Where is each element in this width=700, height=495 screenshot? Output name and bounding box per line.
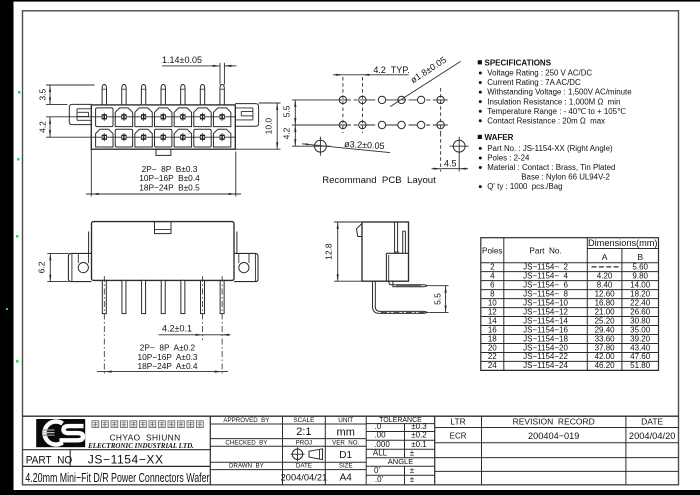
table header [482,238,657,262]
svg-text:Recommand PCB Layout: Recommand PCB Layout [322,175,436,186]
svg-text:JS−1154−18: JS−1154−18 [523,334,568,343]
svg-text:Dimensions(mm): Dimensions(mm) [588,238,658,248]
svg-text:26.60: 26.60 [630,307,651,316]
side view pin centerline [381,311,433,313]
svg-text:8.40: 8.40 [597,280,613,289]
svg-text:JS−1154− 2: JS−1154− 2 [523,262,568,271]
svg-text:JS−1154−16: JS−1154−16 [523,325,568,334]
svg-text:3.5: 3.5 [38,89,48,101]
svg-text:29.40: 29.40 [595,325,616,334]
svg-text:Withstanding Voltage : 1,500V: Withstanding Voltage : 1,500V AC/minute [487,88,632,97]
svg-text:6.2: 6.2 [36,261,46,273]
svg-text:LTR: LTR [450,417,465,427]
svg-text:25.20: 25.20 [595,316,616,325]
svg-text:Q' ty : 1000 pcs./Bag: Q' ty : 1000 pcs./Bag [487,182,562,191]
svg-text:D1: D1 [339,450,352,461]
bottom view left flange [68,253,91,281]
svg-text:16: 16 [488,325,497,334]
svg-text:SCALE: SCALE [293,417,314,424]
svg-text:Part No.: Part No. [529,246,561,255]
svg-text:9.80: 9.80 [632,271,648,280]
svg-text:ø3.2±0.05: ø3.2±0.05 [344,139,385,151]
svg-text:20: 20 [488,343,497,352]
caption Recommand PCB Layout [322,175,436,186]
svg-text:4.2 TYP.: 4.2 TYP. [373,65,409,75]
revision records [450,417,676,442]
svg-text:47.60: 47.60 [630,352,651,361]
green film dot 5 [16,360,19,363]
dimension 10.0 [235,103,280,149]
svg-text:JS−1154− 8: JS−1154− 8 [523,289,568,298]
svg-text:APPROVED BY: APPROVED BY [223,417,269,424]
svg-text:Temperature Range : - 40℃ to +: Temperature Range : - 40℃ to + 105℃ [487,107,626,116]
svg-text:ECR: ECR [450,432,467,441]
svg-text:JS−1154−24: JS−1154−24 [523,361,568,370]
svg-text:A4: A4 [340,473,353,484]
svg-text:39.20: 39.20 [630,334,651,343]
side view upper pin [389,281,428,287]
dimension 12.8 [324,222,363,281]
bottom view pins [102,280,224,313]
svg-text:Poles : 2-24: Poles : 2-24 [487,154,530,163]
dimension 4.2±0.1 [159,324,231,336]
svg-text:.00: .00 [374,431,386,440]
bottom view left wing line [88,232,90,254]
svg-text:18P−24P B±0.5: 18P−24P B±0.5 [139,183,200,193]
svg-text:4.2: 4.2 [38,121,48,133]
svg-text:6: 6 [490,280,495,289]
bottom view right flange [234,253,258,281]
side view housing [362,222,409,281]
pcb layout right mounting hole ø3.2 [450,137,469,156]
leader line ø1.8 [390,61,460,106]
svg-text:JS−1154−XX: JS−1154−XX [88,452,164,466]
revision section grid [435,416,679,485]
green film dot 3 [16,235,19,238]
svg-text:CHECKED BY: CHECKED BY [225,439,267,446]
bottom view pin centerlines [104,276,222,375]
svg-text:5.5: 5.5 [281,105,291,117]
pcb layout left mounting hole ø3.2 [311,137,330,156]
dimension 5.5 pin length [429,286,449,313]
specifications list [478,58,633,125]
svg-text:12.8: 12.8 [324,243,334,260]
svg-text:4: 4 [490,271,495,280]
svg-text:4.20: 4.20 [597,271,613,280]
svg-text:A: A [602,252,608,262]
svg-text:4.5: 4.5 [444,158,457,168]
part no label [26,454,73,466]
svg-text:24: 24 [488,361,497,370]
title block middle labels [223,417,359,484]
svg-text:±0.2: ±0.2 [411,431,427,440]
svg-text:0': 0' [374,466,380,475]
svg-text:37.80: 37.80 [595,343,616,352]
svg-text:SIZE: SIZE [339,463,353,470]
svg-text:12.60: 12.60 [595,289,616,298]
tolerance labels [373,422,427,484]
svg-text:VER NO.: VER NO. [332,439,359,446]
svg-text:18: 18 [488,334,497,343]
bottom view right wing line [236,232,238,254]
svg-text:JS−1154− 4: JS−1154− 4 [523,271,568,280]
dimension 5.5 rows [281,100,296,125]
svg-text:2: 2 [490,262,495,271]
label ø3.2±0.05 [302,139,390,153]
svg-text:4.20mm Mini−Fit D/R Power Conn: 4.20mm Mini−Fit D/R Power Connectors Waf… [25,471,209,485]
projection symbols [291,447,323,461]
svg-text:12: 12 [488,307,497,316]
svg-text:2:1: 2:1 [296,426,311,438]
pcb layout row center lines [292,100,448,125]
svg-text:JS−1154− 6: JS−1154− 6 [523,280,568,289]
svg-text:±: ± [410,475,415,484]
green film dot 1 [18,91,21,94]
pcb layout vertical dashed centerlines [343,77,441,133]
table rows [488,262,651,370]
svg-text:REVISION RECORD: REVISION RECORD [513,417,595,427]
description [25,471,209,485]
svg-text:Material : Contact : Brass, Ti: Material : Contact : Brass, Tin Plated [487,163,615,172]
pcb layout pin holes ø1.8 [339,96,444,128]
svg-text:33.60: 33.60 [595,334,616,343]
svg-text:Contact Resistance : 20m Ω ma: Contact Resistance : 20m Ω max [487,116,605,125]
svg-text:51.80: 51.80 [630,361,651,370]
svg-text:42.00: 42.00 [595,352,616,361]
svg-text:16.80: 16.80 [595,298,616,307]
dimension 4.5 [432,133,469,172]
svg-text:PART NO: PART NO [26,454,73,466]
side view latch [356,224,362,237]
svg-text:5.5: 5.5 [432,293,442,305]
company name chinese [92,421,203,428]
svg-text:SPECIFICATIONS: SPECIFICATIONS [485,58,552,67]
svg-text:1.14±0.05: 1.14±0.05 [162,55,202,65]
wafer list [478,133,616,191]
svg-text:UNIT: UNIT [338,417,353,424]
svg-text:4.2: 4.2 [281,127,291,139]
svg-text:JS−1154−20: JS−1154−20 [523,343,568,352]
bottom black film strip [0,490,700,495]
front view row1 center line [46,116,235,118]
front view right mounting ear [235,104,258,127]
svg-text:ALL: ALL [373,448,388,457]
svg-text:PROJ: PROJ [296,439,313,446]
label ø1.8±0.05 [409,55,448,85]
svg-text:18.20: 18.20 [630,289,651,298]
bottom view latch tab [155,222,172,234]
tolerance header [379,417,422,424]
svg-text:46.20: 46.20 [595,361,616,370]
company name serif [87,442,194,450]
dimension 4.2 hole offset [281,125,311,146]
svg-text:DRAWN BY: DRAWN BY [229,463,264,470]
svg-text:22.40: 22.40 [630,298,651,307]
title block left section lines [23,416,211,485]
company name english [109,433,180,443]
left black film strip [0,0,14,495]
svg-text:2004/04/20: 2004/04/20 [629,431,676,441]
dimension 6.2 [36,253,68,281]
svg-text:±: ± [410,466,415,475]
svg-text:Poles: Poles [482,246,502,255]
dimension 4.2 TYP [333,65,410,76]
svg-text:2004/04/21: 2004/04/21 [281,473,328,483]
svg-text:JS−1154−10: JS−1154−10 [523,298,568,307]
svg-text:30.80: 30.80 [630,316,651,325]
title block middle grid [210,416,434,485]
svg-text:18P−24P A±0.4: 18P−24P A±0.4 [138,361,198,371]
svg-text:JS−1154−22: JS−1154−22 [523,352,568,361]
title block top border [23,415,679,417]
front view bottom latch tab [156,149,171,155]
svg-text:10.0: 10.0 [264,118,274,135]
svg-text:JS−1154−12: JS−1154−12 [523,307,568,316]
front view contacts [102,113,225,141]
svg-text:Part No. : JS-1154-XX (Right A: Part No. : JS-1154-XX (Right Angle) [487,144,613,153]
svg-text:±: ± [410,448,415,457]
svg-text:Voltage Rating : 250 V AC/DC: Voltage Rating : 250 V AC/DC [487,69,592,78]
svg-text:43.40: 43.40 [630,343,651,352]
side view rear block [386,253,408,281]
svg-text:ANGLE: ANGLE [388,457,413,466]
dimension A width [97,343,228,373]
svg-text:8: 8 [490,289,495,298]
front view body outline [91,105,235,149]
top black edge line [0,0,700,2]
front view cavities [96,108,231,147]
green film dot 4 [6,308,8,310]
svg-text:.0': .0' [375,475,384,484]
svg-text:4.2±0.1: 4.2±0.1 [162,324,192,334]
front view row2 center line [46,136,235,138]
svg-text:Base : Nylon 66 UL94V-2: Base : Nylon 66 UL94V-2 [521,173,610,182]
part no value [88,452,164,466]
svg-text:14: 14 [488,316,497,325]
svg-text:mm: mm [337,427,355,439]
svg-text:5.60: 5.60 [632,262,648,271]
green film dot 2 [17,158,20,161]
svg-text:35.00: 35.00 [630,325,651,334]
bottom view body [92,222,235,281]
svg-text:WAFER: WAFER [485,133,514,142]
svg-text:B: B [637,252,643,262]
svg-text:TOLERANCE: TOLERANCE [379,417,422,424]
svg-text:ELECTRONIC INDUSTRIAL LTD.: ELECTRONIC INDUSTRIAL LTD. [87,442,194,450]
dimension 3.5 [38,85,95,104]
svg-text:DATE: DATE [296,463,312,470]
dimension 1.14±0.05 [162,55,237,85]
side view lower pin [373,281,428,313]
svg-text:Current Rating : 7A AC/DC: Current Rating : 7A AC/DC [487,78,581,87]
svg-text:DATE: DATE [641,417,663,427]
dimension B width [86,149,241,196]
front view left mounting ear [69,104,91,124]
dimension 4.2 row pitch [38,117,52,137]
front view pins (7 terminals) [102,85,224,105]
svg-text:10: 10 [488,298,497,307]
svg-text:Insulation Resistance : 1,000M: Insulation Resistance : 1,000M Ω min [487,97,620,106]
svg-text:21.00: 21.00 [595,307,616,316]
svg-text:22: 22 [488,352,497,361]
svg-text:JS−1154−14: JS−1154−14 [523,316,568,325]
svg-text:200404−019: 200404−019 [528,431,579,441]
company logo [36,419,85,447]
table grid [481,238,659,371]
svg-text:14.00: 14.00 [630,280,651,289]
